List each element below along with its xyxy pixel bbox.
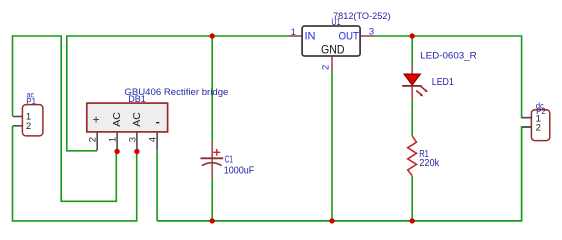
svg-text:+: +: [89, 116, 103, 123]
node junction DB1.1: [114, 149, 119, 154]
wire: net AC-L top-left P1.1 to DB1.1: [13, 36, 117, 201]
node junction top C1: [210, 33, 215, 38]
svg-text:GND: GND: [321, 43, 345, 57]
svg-text:IN: IN: [305, 31, 316, 43]
svg-text:2: 2: [536, 123, 541, 134]
svg-text:OUT: OUT: [339, 31, 360, 43]
wire: LED branch drop from VOUT: [411, 36, 413, 66]
svg-text:3: 3: [127, 137, 138, 142]
pin 1: [116, 132, 118, 151]
wire: LED to R1 link: [411, 100, 413, 136]
svg-text:1000uF: 1000uF: [224, 165, 255, 176]
wire: DB1.4 drop to ground rail: [156, 151, 158, 221]
pin 2: [96, 132, 98, 151]
svg-text:3: 3: [369, 27, 374, 38]
emission arrows: [416, 86, 428, 96]
node junction gnd R1: [410, 218, 415, 223]
wire: ground bottom rail to P2.2: [157, 127, 531, 221]
LED LED1: [402, 66, 428, 101]
node junction gnd C1: [210, 218, 215, 223]
svg-text:P2: P2: [536, 106, 546, 116]
svg-text:1: 1: [291, 27, 296, 38]
svg-text:AC: AC: [131, 112, 143, 127]
wire: C1 top drop from top rail: [211, 36, 213, 141]
svg-text:1: 1: [108, 137, 119, 142]
connector P1: [13, 105, 43, 136]
svg-text:LED1: LED1: [432, 77, 454, 88]
svg-text:7812(TO-252): 7812(TO-252): [333, 11, 391, 22]
node junction gnd U1: [329, 218, 334, 223]
svg-text:2: 2: [321, 65, 332, 70]
node junction VOUT/LED: [410, 33, 415, 38]
pin 3: [136, 132, 138, 151]
pin 4: [156, 132, 158, 151]
capacitor C1: [201, 141, 224, 179]
regulator U1 7812: [289, 26, 375, 72]
resistor R1: [408, 136, 417, 175]
rectifier bridge DB1: [87, 103, 168, 150]
svg-text:P1: P1: [26, 96, 36, 106]
svg-text:LED-0603_R: LED-0603_R: [420, 51, 477, 62]
svg-text:4: 4: [148, 137, 159, 142]
node junction DB1.3: [134, 149, 139, 154]
wire: net V+ DB1.2 to U1 IN (top rail): [67, 36, 289, 151]
wire: C1 bottom to ground rail: [211, 179, 213, 221]
wire: R1 bottom to ground rail: [411, 176, 413, 221]
svg-text:C1: C1: [225, 155, 233, 166]
svg-text:220k: 220k: [419, 158, 439, 169]
svg-text:U1: U1: [331, 17, 340, 28]
wire: net AC-N P1.2 to DB1.3 via bottom-left rail: [13, 126, 137, 221]
svg-text:AC: AC: [111, 112, 123, 127]
wire: net VOUT U1 OUT to P2.1: [375, 36, 532, 118]
wire: U1 GND drop: [331, 72, 333, 221]
svg-text:2: 2: [26, 121, 31, 132]
connector P2: [522, 110, 550, 141]
svg-text:DB1: DB1: [128, 94, 146, 105]
svg-text:2: 2: [88, 137, 99, 142]
